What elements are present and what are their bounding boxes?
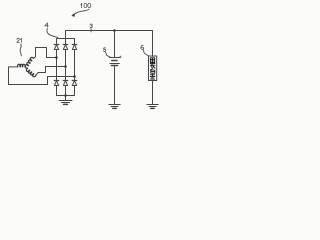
bridge leg1 vertical [56, 50, 58, 81]
label 3 [90, 24, 92, 28]
node: phase W junction leg2 [64, 65, 67, 68]
leader for 4 [47, 29, 58, 38]
diode D5 (bottom leg2) [63, 80, 68, 82]
load text glyph 4 [150, 74, 155, 79]
node: phase U junction leg3 [73, 75, 76, 78]
leader tick for 3 [90, 28, 92, 32]
label 21 [17, 38, 22, 42]
leader for 5 [106, 52, 111, 57]
load text glyph 2 [150, 63, 155, 68]
winding 21: phase coil U (horizontal) [18, 64, 26, 67]
ground (load) [147, 104, 158, 106]
node: phase V junction leg1 [55, 56, 58, 59]
positive rail (top) [66, 31, 153, 39]
winding 21: phase coil V (upper diagonal) [25, 57, 33, 68]
ground (bridge) [59, 100, 72, 102]
diode D2 (top leg2) [63, 44, 68, 46]
diode D6 (bottom leg3) [72, 80, 77, 82]
wire: phase U to leg3 (stepped) [9, 67, 75, 85]
wire: phase V to leg1 (stepped) [34, 48, 57, 59]
bridge top bus [57, 39, 75, 45]
label 4 [45, 23, 49, 27]
load text glyph 3 [150, 69, 154, 74]
wire: bus stub leg2 [65, 39, 67, 45]
bridge leg3 vertical [74, 50, 76, 81]
label 5 [103, 48, 105, 52]
load text glyph 1 [150, 58, 154, 63]
load box 6 [149, 56, 157, 81]
battery 5 plates [109, 57, 119, 59]
wire: rail to load box [152, 31, 154, 57]
star point wires [25, 67, 28, 69]
wire: leg2 to bottom bus [65, 86, 67, 96]
wire: load box to ground [152, 81, 154, 105]
wire: rail to battery [114, 31, 116, 58]
node: battery tap on rail [113, 29, 116, 32]
arrow leader for 100 [72, 9, 89, 15]
node: bottom bus junction [64, 94, 67, 97]
bridge bottom bus [57, 86, 75, 96]
leader for 21 [20, 44, 21, 56]
diode D1 (top leg1) [54, 44, 59, 46]
label 6 [141, 45, 144, 49]
ground (battery) [109, 104, 120, 106]
wire: bus to ground [65, 96, 67, 101]
winding 21: phase coil W (lower diagonal) [26, 68, 35, 76]
diode D3 (top leg3) [72, 44, 77, 46]
label 100 [81, 3, 91, 7]
bridge leg2 vertical [65, 50, 67, 81]
leader for 6 [143, 50, 148, 56]
wire: phase W to leg2 (stepped) [36, 67, 66, 76]
diode D4 (bottom leg1) [54, 80, 59, 82]
battery plus mark [119, 56, 121, 58]
wire: battery to ground [114, 66, 116, 105]
